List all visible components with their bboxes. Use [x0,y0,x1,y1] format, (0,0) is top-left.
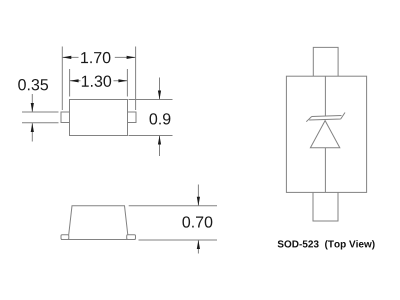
dim 1.70 extension line right [135,47,137,111]
diode D1 triangle [310,121,339,148]
dim 0.35 leader line top [31,94,33,112]
wire anode segment [324,148,326,193]
dim 0.70 leader line bottom [197,240,199,254]
arrowhead 0.35 down [31,103,34,112]
dim 1.70 dimension line [62,56,135,58]
dim 0.9 leader line top [159,78,161,100]
dim text 0.35 [18,79,48,90]
dim 0.35 extension line bottom [22,122,59,124]
dim 1.30 extension line left [69,69,71,97]
top view body [70,100,128,136]
arrowhead 0.35 up [31,123,34,132]
top view left lead [61,112,70,123]
dim 0.70 extension line top [129,205,217,207]
schematic body outline [286,76,366,192]
arrowhead 0.9 down [158,91,161,100]
arrowhead 0.70 down [197,197,200,206]
arrowhead 1.30 right [118,79,127,82]
dim 0.9 extension line top [129,99,173,101]
dim 0.9 extension line bottom [129,135,173,137]
dim 0.70 leader line top [197,185,199,206]
arrowhead 0.9 up [158,136,161,145]
dim text 0.70 [182,216,212,227]
diode D1 zener bar [306,113,345,122]
caption SOD-523 (Top View) [278,240,375,249]
side view seating plane line [61,239,136,241]
arrowhead 1.70 right [127,56,136,59]
dim text 1.30 [82,76,111,87]
side view left lead [61,235,69,240]
side view right lead [127,235,136,240]
arrowhead 0.70 up [197,240,200,249]
dim text 0.9 [150,113,171,124]
top view right lead [128,112,137,123]
dim 1.30 extension line right [126,69,128,97]
dim text 1.70 [81,52,110,63]
arrowhead 1.30 left [70,79,79,82]
dim 1.30 dimension line [70,80,128,82]
dim 0.35 extension line top [22,111,59,113]
wire cathode segment [324,76,326,116]
schematic top tab lead [313,47,338,76]
side view body trapezoid [69,206,128,235]
dim 0.70 extension line bottom [139,239,218,241]
dim 1.70 extension line left [61,47,63,111]
dim 0.9 leader line bottom [159,136,161,157]
schematic bottom tab lead [313,192,338,221]
arrowhead 1.70 left [62,56,71,59]
dim 0.35 leader line bottom [31,123,33,142]
